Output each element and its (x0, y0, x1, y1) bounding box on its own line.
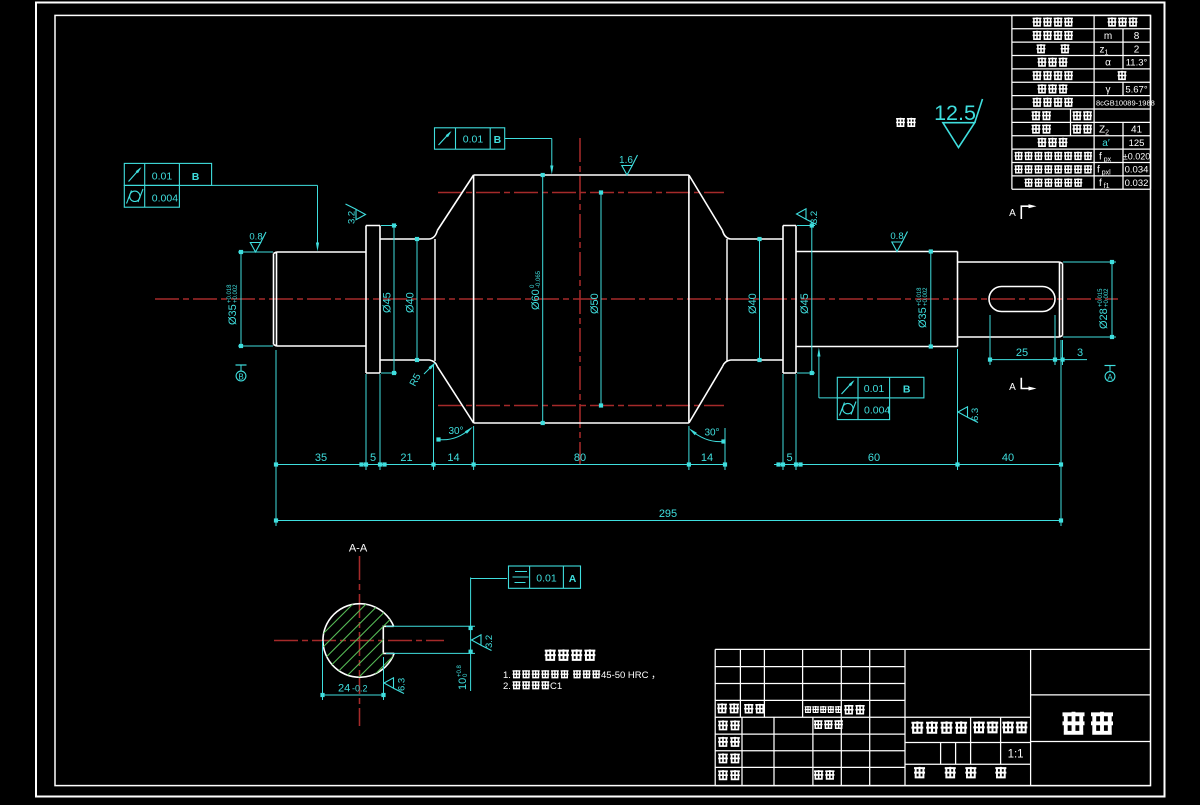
svg-text:0.8: 0.8 (890, 231, 903, 242)
svg-text:±0.020: ±0.020 (1123, 151, 1150, 161)
svg-text:Ø60: Ø60 (530, 289, 542, 310)
shoulder face D35/D28 (957, 252, 959, 347)
svg-text:11.3°: 11.3° (1126, 58, 1148, 69)
svg-text:5.67°: 5.67° (1125, 84, 1147, 95)
svg-text:24: 24 (338, 683, 350, 695)
shaft end D28 (958, 262, 1060, 337)
svg-text:B: B (903, 384, 911, 396)
svg-text:45-50 HRC ，: 45-50 HRC ， (601, 670, 661, 681)
dim D45 right (811, 226, 813, 374)
svg-text:Ø28: Ø28 (1098, 308, 1110, 329)
svg-text:A: A (1107, 373, 1113, 382)
fillet R5 bottom right (723, 360, 731, 367)
svg-text:α: α (1105, 58, 1111, 69)
centerline worm pitch top (438, 192, 724, 194)
dim D40 right (759, 239, 761, 360)
tech requirements title (545, 649, 556, 660)
svg-text:m: m (1104, 31, 1112, 42)
roughness 3.2 keyway A-A (472, 635, 492, 651)
roughness 6.3 right shoulder (958, 407, 978, 423)
dim chain 5-60-40 (774, 464, 1061, 466)
leader F4 (471, 578, 507, 580)
svg-text:40: 40 (1002, 452, 1014, 464)
svg-text:25: 25 (1016, 347, 1028, 359)
shaft section D40 left (380, 239, 430, 360)
shaft right end face with chamfer (1060, 262, 1063, 337)
svg-text:14: 14 (447, 452, 459, 464)
svg-text:+0.002: +0.002 (233, 284, 239, 303)
svg-text:-0.2: -0.2 (352, 684, 368, 694)
svg-text:+0.002: +0.002 (923, 287, 929, 306)
section A-A circle with keyway notch (323, 604, 394, 678)
shaft journal D35 left (277, 252, 367, 346)
svg-text:A-A: A-A (349, 543, 368, 555)
tangency edge line right (726, 239, 728, 361)
svg-text:1.6: 1.6 (619, 155, 633, 166)
feature frame F2 runout 0.01 B top (435, 128, 505, 149)
centerline main axis (155, 298, 1118, 300)
svg-text:3: 3 (1077, 347, 1083, 359)
worm cone bottom right (689, 367, 723, 424)
svg-text:0.01: 0.01 (463, 134, 484, 146)
svg-text:B: B (494, 134, 502, 146)
svg-text:Ø45: Ø45 (382, 292, 394, 313)
roughness 3.2 collar left (346, 204, 366, 220)
dim D35 left (240, 252, 242, 346)
centerline worm pitch bottom (438, 405, 724, 407)
dim 10 keyway width (470, 578, 472, 692)
svg-text:5: 5 (786, 452, 792, 464)
svg-text:A: A (569, 573, 577, 585)
label qiyu rest (896, 118, 905, 127)
shaft left end face with chamfer (274, 252, 277, 346)
svg-text:3.2: 3.2 (484, 635, 495, 648)
svg-text:0.01: 0.01 (152, 171, 173, 183)
svg-text:8cGB10089-1988: 8cGB10089-1988 (1096, 98, 1155, 107)
datum B symbol (236, 364, 247, 366)
fillet R5 top left (430, 231, 438, 240)
svg-text:2.: 2. (503, 681, 511, 692)
svg-text:Ø50: Ø50 (589, 293, 601, 314)
dim D45 left (393, 226, 395, 374)
svg-text:Ø40: Ø40 (747, 293, 759, 314)
svg-text:5: 5 (370, 452, 376, 464)
svg-text:295: 295 (659, 508, 677, 520)
svg-text:0.034: 0.034 (1125, 165, 1149, 176)
feature frame F1 runout 0.01 B / cylindricity 0.004 (124, 163, 211, 185)
part name wogan (1063, 712, 1085, 735)
svg-text:3.2: 3.2 (347, 211, 358, 224)
dim D40 left (416, 239, 418, 360)
worm cone top right (689, 175, 723, 231)
parameter table grid (1012, 15, 1151, 189)
feature frame F3 runout 0.01 B / cylindricity 0.004 right (837, 377, 924, 398)
dim D50 pitch (600, 193, 602, 406)
roughness 0.8 left journal (250, 232, 266, 252)
svg-text:80: 80 (574, 452, 586, 464)
svg-text:0.004: 0.004 (864, 405, 890, 417)
tangency edge line left (434, 239, 436, 361)
worm cone top left (437, 175, 473, 231)
svg-text:6.3: 6.3 (397, 678, 408, 691)
feature frame F4 symmetry 0.01 A section (509, 566, 581, 588)
worm body D60 (474, 175, 689, 423)
svg-text:0.004: 0.004 (152, 193, 178, 205)
keyway slot extension lines A-A (386, 625, 475, 627)
fillet R5 bottom left (430, 360, 438, 367)
svg-text:2: 2 (1134, 44, 1140, 55)
centerline section A-A vertical (359, 556, 361, 726)
dim 25 keyway (990, 359, 1055, 361)
dim chain 35-5-21-14-80-14 (276, 464, 725, 466)
title block labels (717, 703, 727, 713)
svg-text:0.8: 0.8 (249, 232, 262, 243)
svg-text:35: 35 (315, 452, 327, 464)
svg-text:3.2: 3.2 (809, 211, 820, 224)
shaft collar D45 right (783, 226, 796, 374)
svg-text:Ø35: Ø35 (917, 307, 929, 328)
svg-text:6.3: 6.3 (970, 408, 981, 421)
title block grid (715, 649, 1150, 785)
dim 24 section (322, 641, 324, 700)
svg-text:A: A (1009, 382, 1016, 393)
dim D35 right (930, 252, 932, 347)
svg-text:41: 41 (1131, 125, 1143, 136)
worm cone bottom left (437, 367, 473, 424)
svg-text:12.5: 12.5 (934, 101, 976, 125)
svg-text:-0.065: -0.065 (536, 270, 542, 288)
roughness 1.6 worm (622, 155, 638, 175)
roughness 3.2 collar right (797, 209, 817, 225)
dim D60 worm (542, 175, 544, 423)
roughness 12.5 general (943, 99, 983, 148)
table row labels (1033, 17, 1042, 26)
leader F1 (212, 184, 318, 186)
svg-text:10: 10 (457, 678, 469, 690)
svg-text:a′: a′ (1102, 138, 1110, 149)
centerline worm vertical (579, 138, 581, 465)
shaft journal D35 right (796, 252, 958, 347)
dim D28 (1111, 262, 1113, 337)
svg-text:γ: γ (1106, 84, 1111, 95)
svg-text:Ø40: Ø40 (405, 292, 417, 313)
svg-text:Ø35: Ø35 (227, 304, 239, 325)
svg-text:B: B (238, 373, 243, 382)
svg-text:0.01: 0.01 (864, 383, 885, 395)
svg-text:1:1: 1:1 (1008, 749, 1024, 761)
svg-text:1.: 1. (503, 670, 511, 681)
svg-text:A: A (1009, 208, 1016, 219)
svg-text:14: 14 (701, 452, 713, 464)
shaft collar D45 left (366, 226, 380, 374)
fillet R5 top right (723, 231, 731, 240)
svg-text:60: 60 (868, 452, 880, 464)
svg-text:0.032: 0.032 (1125, 178, 1149, 189)
extension lines (276, 315, 1063, 526)
svg-text:21: 21 (400, 452, 412, 464)
svg-text:C1: C1 (550, 681, 562, 692)
svg-text:+0.002: +0.002 (1104, 288, 1110, 307)
keyway slot main view (989, 287, 1055, 312)
svg-text:30°: 30° (704, 428, 719, 439)
leader F2 (505, 138, 552, 140)
roughness 0.8 right journal (892, 232, 908, 252)
svg-text:0.01: 0.01 (536, 573, 557, 585)
svg-text:Ø45: Ø45 (799, 293, 811, 314)
roughness 6.3 section A-A (384, 678, 404, 694)
centerline section A-A horizontal (274, 640, 444, 642)
shaft section D40 right (731, 239, 784, 360)
svg-text:125: 125 (1129, 138, 1145, 149)
svg-text:B: B (192, 171, 200, 183)
dim 3 keyway to end (1055, 359, 1087, 361)
keyway notch A-A (383, 626, 394, 653)
svg-text:8: 8 (1134, 31, 1140, 42)
datum A symbol (1105, 365, 1116, 367)
leader F3 (819, 397, 837, 399)
dim 295 overall (276, 520, 1061, 522)
